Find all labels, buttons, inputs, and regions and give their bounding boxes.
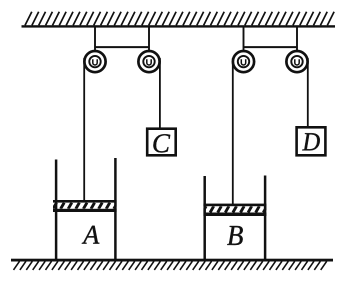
pulley P4: [286, 51, 307, 72]
cylinder B right wall: [264, 176, 267, 260]
piston of B (hatched body): [203, 206, 267, 212]
rope from pulley P4 down to weight D: [307, 58, 309, 127]
pulley P3: [233, 51, 254, 72]
label B (gas region): [227, 226, 243, 245]
cylinder A left wall: [55, 160, 58, 260]
label D: [302, 133, 320, 150]
piston of B (bottom plate): [203, 213, 266, 217]
hanger rod (right pair, right pulley): [296, 27, 298, 59]
cylinder A right wall: [114, 158, 117, 260]
rope from piston B up to pulley P3: [232, 58, 234, 206]
crossbar of left pulley pair: [95, 46, 149, 48]
cylinder B left wall: [203, 176, 206, 260]
crossbar of right pulley pair: [244, 46, 298, 48]
hanger rod (left pair, left pulley): [94, 27, 96, 59]
label A (gas region): [82, 226, 100, 244]
weight D box: [297, 127, 326, 155]
piston of B (top plate): [203, 204, 266, 207]
hanger rod (left pair, right pulley): [148, 27, 150, 59]
ceiling line: [22, 25, 336, 27]
piston of A (hatched body): [53, 203, 117, 209]
piston of A (top plate): [53, 200, 117, 203]
pulley P1: [84, 51, 105, 72]
pulley P2: [138, 51, 159, 72]
ground line: [11, 259, 333, 262]
ground hatch: [14, 261, 327, 270]
weight C box: [147, 129, 176, 156]
ceiling hatch: [25, 12, 334, 26]
rope from pulley P2 down to weight C: [159, 58, 161, 129]
label C: [153, 134, 170, 152]
rope from piston A up to pulley P1: [83, 58, 85, 202]
hanger rod (right pair, left pulley): [243, 27, 245, 59]
piston of A (bottom plate): [53, 209, 117, 212]
